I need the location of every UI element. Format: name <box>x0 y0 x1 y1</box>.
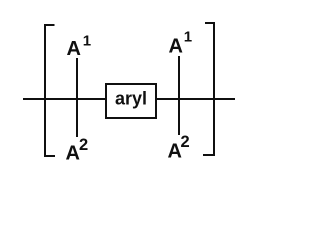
svg-text:A: A <box>66 143 80 163</box>
svg-text:2: 2 <box>79 136 88 154</box>
svg-text:aryl: aryl <box>115 89 147 109</box>
svg-text:1: 1 <box>184 29 192 46</box>
svg-text:A: A <box>67 38 81 60</box>
svg-text:A: A <box>169 36 183 58</box>
svg-text:2: 2 <box>181 133 190 151</box>
svg-text:1: 1 <box>83 33 91 50</box>
